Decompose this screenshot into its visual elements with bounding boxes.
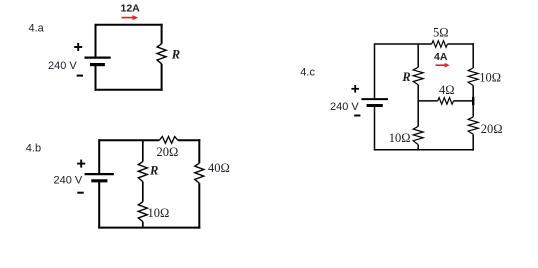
svg-text:4Ω: 4Ω: [439, 83, 455, 97]
svg-text:R: R: [149, 163, 158, 177]
svg-text:4A: 4A: [434, 51, 448, 63]
svg-text:R: R: [171, 48, 180, 62]
wire top-right 4.b: [178, 139, 201, 141]
wire middle branch lower 4.b: [142, 222, 144, 228]
wire right lower 4.c: [472, 134, 474, 150]
svg-text:240 V: 240 V: [54, 175, 83, 187]
svg-text:4.b: 4.b: [26, 142, 41, 154]
resistor R (4.a): [157, 44, 166, 64]
wire top-left 4.b: [99, 139, 159, 141]
wire left lower 4.a: [95, 65, 97, 91]
resistor R (4.b): [138, 162, 147, 182]
junction dot middle-right 4.c: [472, 97, 474, 105]
resistor 10 ohm (4.b): [138, 202, 147, 222]
resistor 5 ohm (4.c): [432, 41, 448, 48]
battery V1 240V positive plate: [85, 56, 111, 58]
battery V1 plus sign: [74, 43, 82, 51]
svg-text:10Ω: 10Ω: [389, 131, 411, 145]
wire top-left 4.c: [375, 43, 432, 45]
svg-text:4.a: 4.a: [29, 23, 45, 35]
svg-text:R: R: [401, 70, 410, 84]
wire right upper 4.a: [161, 24, 163, 44]
wire middle branch mid 4.c: [417, 85, 419, 101]
wire right upper 4.c: [472, 43, 474, 68]
wire top 4.a: [96, 24, 163, 26]
wire middle branch lower 4.c: [417, 101, 419, 127]
wire right mid 4.c: [472, 86, 474, 117]
battery V3 plus sign: [351, 85, 359, 93]
wire left upper 4.b: [98, 139, 100, 174]
wire middle horizontal left 4.c: [418, 100, 438, 102]
svg-text:240 V: 240 V: [48, 60, 77, 72]
wire right lower 4.a: [161, 64, 163, 91]
wire bottom 4.c: [374, 149, 474, 151]
wire left upper 4.c: [374, 43, 376, 99]
current arrow I = 4A: [436, 63, 450, 68]
resistor R (4.c): [413, 67, 423, 85]
wire bottom 4.b: [98, 227, 200, 229]
resistor 10 ohm right (4.c): [468, 68, 478, 86]
battery V1 minus sign: [77, 75, 83, 77]
battery V3 240V positive plate: [361, 98, 388, 100]
svg-text:10Ω: 10Ω: [479, 71, 501, 85]
wire bottom 4.a: [95, 89, 163, 91]
wire top-right 4.c: [448, 43, 474, 45]
battery V2 minus sign: [77, 192, 83, 194]
wire right lower 4.b: [198, 183, 200, 228]
battery V2 240V negative plate: [91, 179, 107, 182]
current arrow I = 12A: [122, 15, 139, 20]
wire left upper 4.a: [95, 24, 97, 58]
svg-text:20Ω: 20Ω: [157, 145, 179, 159]
wire middle branch upper 4.b: [142, 140, 144, 161]
resistor 20 ohm right (4.c): [468, 117, 478, 135]
svg-text:10Ω: 10Ω: [148, 206, 170, 220]
battery V3 minus sign: [354, 115, 360, 117]
battery V2 240V positive plate: [85, 173, 114, 175]
svg-text:5Ω: 5Ω: [433, 25, 449, 39]
wire left lower 4.b: [98, 181, 100, 229]
resistor 10 ohm lower (4.c): [413, 126, 423, 144]
resistor 20 ohm (4.b): [159, 137, 177, 144]
wire middle branch upper 4.c: [417, 44, 419, 67]
svg-text:240 V: 240 V: [330, 101, 359, 113]
resistor 4 ohm (4.c): [438, 98, 454, 105]
battery V3 240V negative plate: [367, 104, 383, 107]
wire middle branch bottom 4.c: [417, 145, 419, 150]
svg-text:20Ω: 20Ω: [481, 122, 503, 136]
wire middle horizontal right 4.c: [454, 100, 474, 102]
battery V1 240V negative plate: [90, 63, 105, 66]
battery V2 plus sign: [77, 160, 85, 168]
wire right upper 4.b: [198, 139, 200, 163]
wire middle branch mid 4.b: [142, 182, 144, 202]
svg-text:40Ω: 40Ω: [208, 161, 230, 175]
svg-text:4.c: 4.c: [300, 67, 315, 79]
wire left lower 4.c: [374, 106, 376, 151]
resistor 40 ohm (4.b): [195, 163, 204, 183]
svg-text:12A: 12A: [121, 3, 141, 15]
